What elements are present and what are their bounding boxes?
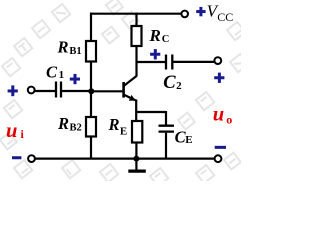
polarity + (output) xyxy=(214,73,224,83)
wire: RB2 to ground rail xyxy=(90,136,92,159)
wire: C2 to output terminal xyxy=(173,61,214,63)
wire: CE branch from emitter xyxy=(135,111,166,113)
wire: CE top stub xyxy=(165,111,167,125)
svg-text:C: C xyxy=(162,34,170,45)
capacitor C2 xyxy=(166,55,172,70)
svg-text:C: C xyxy=(46,62,58,81)
wire: RE to ground rail xyxy=(135,142,137,159)
svg-text:CC: CC xyxy=(217,10,233,24)
svg-text:u: u xyxy=(6,120,17,142)
polarity - (input) xyxy=(12,156,21,159)
transistor Q1 emitter arrow xyxy=(129,95,136,101)
svg-text:B2: B2 xyxy=(70,122,82,133)
polarity + (after C1) xyxy=(70,74,80,84)
svg-text:R: R xyxy=(57,114,69,133)
junction: emitter/ground node xyxy=(133,156,139,162)
svg-text:E: E xyxy=(185,134,192,146)
wire: RC to collector xyxy=(135,46,137,77)
wire: RB1 to base node xyxy=(90,62,92,93)
resistor RE xyxy=(132,121,142,143)
input terminal xyxy=(28,87,35,94)
wire: RC branch from rail xyxy=(135,13,137,26)
terminal: +Vcc xyxy=(181,11,188,18)
watermark (decorative) xyxy=(0,0,248,186)
capacitor CE xyxy=(159,126,175,132)
junction: base node xyxy=(88,88,94,94)
resistor RB2 xyxy=(86,117,96,137)
svg-text:1: 1 xyxy=(59,69,65,81)
polarity + (before C2) xyxy=(150,49,160,59)
svg-text:2: 2 xyxy=(176,80,182,92)
transistor Q1 emitter lead xyxy=(124,95,136,101)
wire: CE bottom stub xyxy=(165,133,167,159)
svg-text:E: E xyxy=(120,125,127,137)
ground terminal (bottom-left) xyxy=(28,155,35,162)
polarity + (input) xyxy=(8,85,18,96)
svg-text:R: R xyxy=(57,37,69,56)
wire: C1 to base node xyxy=(62,90,92,92)
wire: RB1 branch from rail xyxy=(90,13,92,41)
wire: input terminal to C1 xyxy=(35,90,55,92)
wire: emitter down xyxy=(135,100,137,122)
wire: base node to transistor base xyxy=(92,90,123,92)
svg-text:o: o xyxy=(226,112,232,126)
polarity - (output) xyxy=(215,146,226,149)
ground symbol xyxy=(135,159,137,171)
transistor Q1 base bar xyxy=(122,82,125,98)
wire: bottom rail xyxy=(35,158,214,160)
wire: Vcc top rail xyxy=(90,13,181,15)
polarity + of Vcc xyxy=(196,7,205,16)
svg-text:R: R xyxy=(149,26,161,45)
output terminal (+) xyxy=(214,57,221,64)
resistor RB1 xyxy=(86,41,96,62)
svg-text:C: C xyxy=(163,73,176,93)
svg-text:B1: B1 xyxy=(69,46,81,57)
transistor Q1 collector lead xyxy=(124,76,137,86)
capacitor C1 xyxy=(56,82,61,98)
svg-text:R: R xyxy=(108,115,120,134)
wire: C2 branch from collector xyxy=(136,61,166,63)
svg-text:u: u xyxy=(213,104,224,126)
resistor RC xyxy=(132,26,142,46)
wire: base node to RB2 xyxy=(90,91,92,117)
output terminal (-) xyxy=(215,155,222,162)
